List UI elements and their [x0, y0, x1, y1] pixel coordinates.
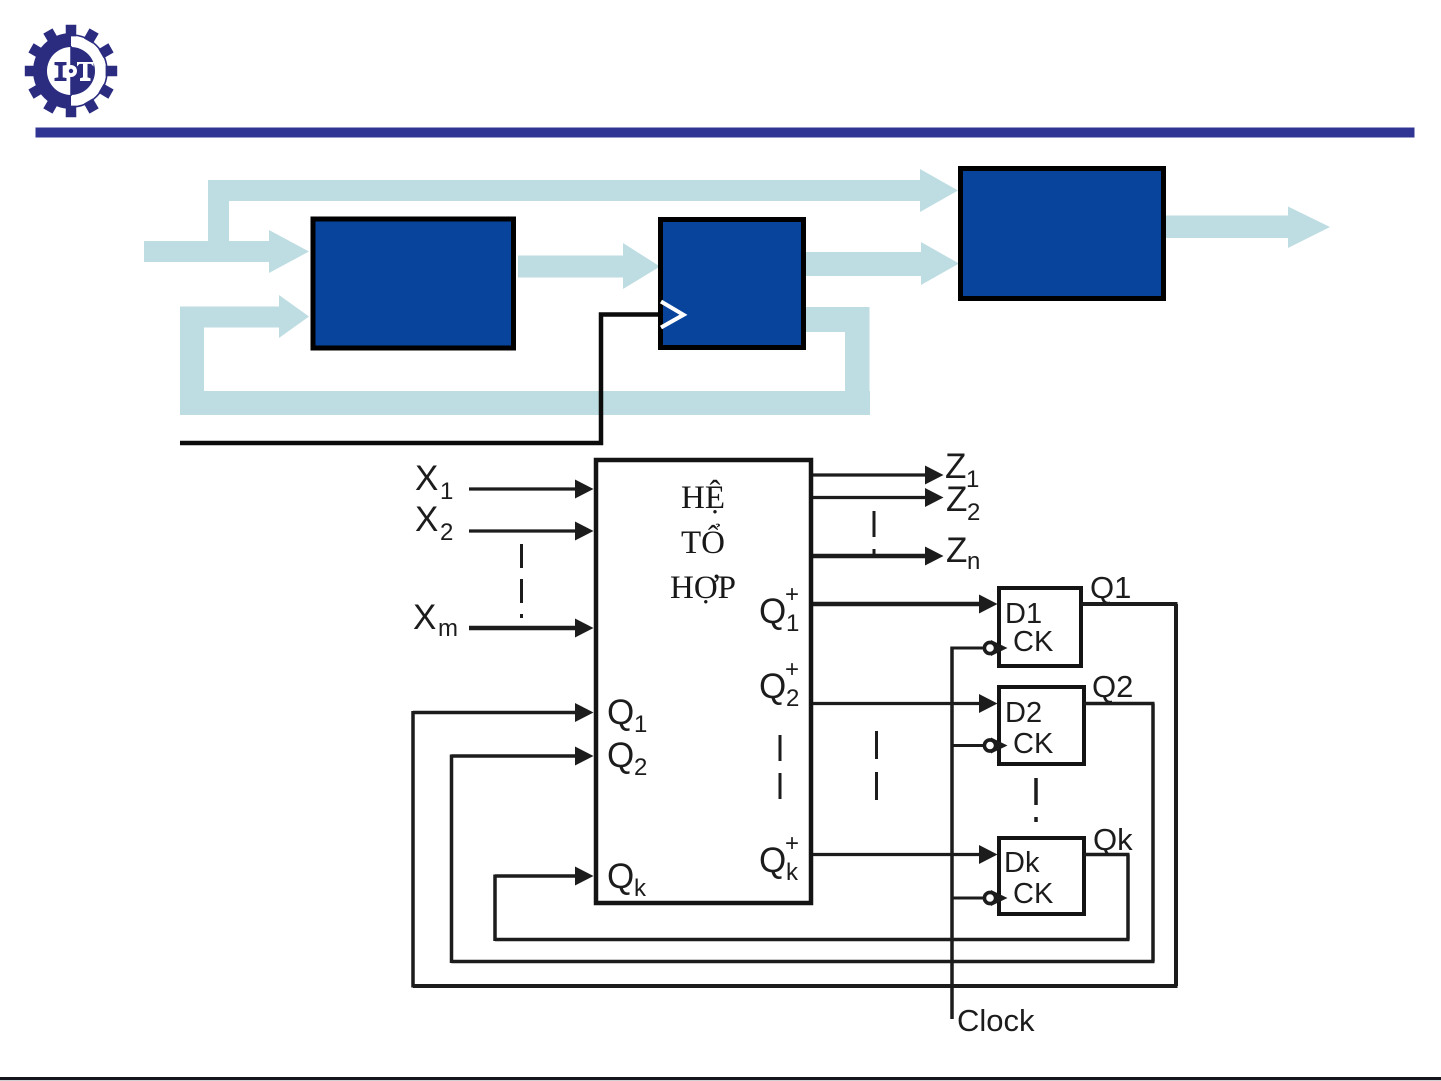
flip-flop Dk [999, 838, 1084, 914]
wire Qk+ to Dk [813, 853, 982, 856]
svg-text:Q: Q [759, 592, 786, 631]
label Qk+ [759, 830, 799, 886]
wire Clock [950, 647, 954, 1020]
svg-text:D2: D2 [1005, 697, 1042, 729]
wire Xm input [469, 626, 579, 631]
svg-text:Q: Q [759, 667, 786, 706]
label Zn [946, 531, 980, 575]
flip-flop D1 [999, 588, 1081, 666]
D2 clock bubble [952, 744, 985, 747]
wire: pale arrow box1 to box2 [518, 243, 660, 289]
wire Zn output [813, 554, 928, 559]
svg-text:Q2: Q2 [1092, 669, 1133, 704]
wire Q2 feedback input [452, 755, 1155, 964]
svg-text:1: 1 [966, 466, 979, 493]
block box2 (state register) [661, 220, 804, 348]
svg-text:TỔ: TỔ [681, 522, 725, 561]
flip-flop D2 [999, 687, 1084, 764]
svg-text:Q1: Q1 [1090, 570, 1131, 605]
svg-text:2: 2 [967, 499, 980, 526]
wire Qk output [1084, 855, 1130, 940]
svg-text:2: 2 [440, 519, 453, 546]
svg-text:X: X [415, 500, 438, 539]
logo IT gear [25, 25, 117, 117]
svg-text:1: 1 [634, 711, 647, 738]
label Q2+ [759, 656, 799, 712]
svg-text:m: m [438, 615, 458, 642]
bottom rule [0, 1077, 1441, 1080]
svg-text:Q: Q [607, 857, 634, 896]
block box3 (output logic) [961, 169, 1164, 299]
wire: pale arrow box2 to box3 [806, 242, 959, 285]
svg-text:Q: Q [607, 693, 634, 732]
svg-text:HỆ: HỆ [681, 479, 725, 516]
svg-text:1: 1 [440, 478, 453, 505]
dots between X2 and Xm [520, 544, 523, 618]
svg-text:Q: Q [607, 736, 634, 775]
label X1 [415, 459, 453, 505]
svg-text:2: 2 [786, 685, 799, 712]
Dk clock bubble [952, 897, 985, 900]
svg-text:HỢP: HỢP [670, 570, 736, 606]
D1 clock bubble [952, 647, 985, 650]
svg-text:X: X [413, 598, 436, 637]
block box1 (input logic) [313, 219, 514, 348]
svg-text:+: + [785, 581, 799, 608]
wire: pale feedback loop [180, 307, 870, 416]
wire Q1+ to D1 [813, 602, 982, 607]
label Z2 [946, 480, 980, 526]
label Z1 [945, 447, 979, 493]
wire Z1 output [813, 473, 928, 476]
svg-text:k: k [634, 875, 647, 902]
svg-text:2: 2 [634, 754, 647, 781]
svg-text:Dk: Dk [1004, 847, 1040, 879]
wire: clock feed to box2 [180, 315, 658, 444]
svg-text:k: k [786, 859, 799, 886]
svg-text:+: + [785, 656, 799, 683]
wire Z2 output [813, 496, 928, 499]
wire: pale top feed band to state box [208, 169, 958, 262]
svg-text:Qk: Qk [1093, 822, 1133, 857]
wire: pale output arrow from box3 [1164, 207, 1330, 249]
wire Q1 output [1081, 604, 1178, 986]
header rule bar [36, 128, 1415, 138]
dots inside box [779, 735, 782, 806]
label X2 [415, 500, 453, 546]
wire Q2 output [1084, 704, 1155, 962]
label Q1+ [759, 581, 799, 637]
combinational box HE TO HOP [596, 460, 811, 903]
label Q2 input [607, 736, 647, 781]
svg-text:X: X [415, 459, 438, 498]
svg-text:CK: CK [1013, 728, 1054, 760]
dots between D2 and Dk [1034, 778, 1038, 822]
wire Q2+ to D2 [813, 702, 982, 705]
clock chevron on box2 [661, 302, 684, 328]
label Xm [413, 598, 458, 642]
svg-text:1: 1 [786, 610, 799, 637]
svg-text:n: n [967, 548, 980, 575]
wire Qk feedback input [495, 875, 1130, 942]
svg-text:+: + [785, 830, 799, 857]
svg-text:Z: Z [946, 480, 967, 519]
svg-text:CK: CK [1013, 626, 1054, 658]
dots right of box [875, 731, 878, 810]
wire: pale feedback arrow into left box [180, 295, 309, 338]
wire X1 input [469, 487, 579, 490]
svg-text:Clock: Clock [957, 1003, 1035, 1038]
svg-text:Q: Q [759, 841, 786, 880]
wire: pale input arrow into left box [144, 230, 309, 273]
dots between Z2 and Zn [873, 511, 876, 554]
wire Q1 feedback input [413, 711, 1178, 988]
svg-text:Z: Z [946, 531, 967, 570]
wire X2 input [469, 529, 579, 532]
label Q1 input [607, 693, 647, 738]
svg-text:CK: CK [1013, 878, 1054, 910]
label Qk input [607, 857, 647, 902]
